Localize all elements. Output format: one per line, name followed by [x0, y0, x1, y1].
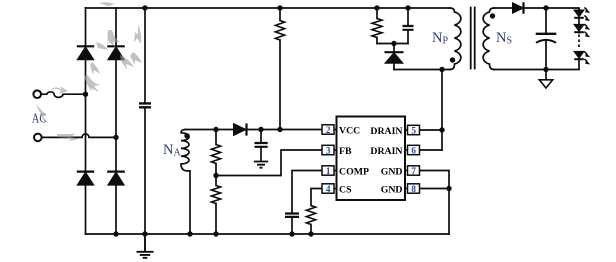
junction dot neutral to bridge [113, 135, 118, 140]
svg-text:AC: AC [32, 110, 47, 125]
clamp diode snubber [385, 51, 404, 53]
wire snubber cap branch [407, 8, 409, 44]
svg-text:7: 7 [411, 166, 416, 176]
junction dot primary bottom / drain [439, 67, 444, 72]
pin 7 box [405, 166, 420, 176]
wire feedback divider branch [215, 130, 217, 235]
LED 3 emission arrows [584, 52, 587, 54]
svg-text:6: 6 [411, 145, 416, 155]
bridge diode D2 (top right) [107, 45, 125, 47]
svg-text:CS: CS [339, 185, 352, 196]
junction dot bottom rail / divider [213, 231, 218, 236]
wire pin8 to bottom rail [419, 189, 449, 235]
pin 8 box [405, 184, 420, 194]
bridge diode D1 (top left) [77, 45, 94, 47]
polarity dot NS [490, 13, 495, 18]
AC terminal live [33, 90, 41, 98]
resistor startup (HV) [275, 21, 284, 41]
junction dot top rail / snubber R [374, 5, 379, 10]
svg-text:COMP: COMP [339, 167, 369, 178]
fuse F1 [41, 92, 85, 97]
wire pin5 to drain node [419, 129, 442, 131]
svg-text:GND: GND [381, 167, 403, 178]
wire output cap branch [545, 8, 547, 70]
resistor divider bottom [211, 186, 220, 204]
svg-text:3: 3 [326, 145, 331, 155]
junction dot bottom rail / bridge [113, 231, 118, 236]
LED 1 emission arrows [584, 7, 587, 9]
ground VCC cap [254, 162, 268, 168]
junction dot top rail / bulk cap [142, 5, 147, 10]
transformer primary winding NP [450, 8, 461, 70]
capacitor VCC [255, 143, 268, 147]
resistor CS sense [306, 206, 315, 225]
junction dot bottom rail / comp cap [289, 231, 294, 236]
junction dot top rail / snubber C [405, 5, 410, 10]
junction dot gnd loop pin8 [446, 186, 451, 191]
wire pin7 to gnd loop [419, 171, 449, 189]
junction dot VCC line / divider [213, 127, 218, 132]
wire secondary bottom [494, 69, 579, 71]
capacitor bulk [139, 103, 151, 107]
wire VCC cap branch [260, 130, 262, 162]
junction dot top rail / startup R [277, 5, 282, 10]
junction dot secondary top / cap [543, 5, 548, 10]
wire neutral lead with crossover hop [42, 134, 116, 138]
junction dot VCC line / cap [258, 127, 263, 132]
wire aux winding return [189, 171, 191, 234]
svg-text:5: 5 [411, 125, 416, 135]
capacitor output (polarized) [536, 33, 557, 35]
svg-text:FB: FB [339, 146, 352, 157]
LED 1 [574, 10, 584, 17]
wire bulk cap branch [144, 8, 146, 234]
pin 6 box [405, 145, 420, 155]
wire CS pin4 to resistor [311, 189, 322, 235]
ground main (primary) [137, 234, 154, 258]
svg-text:GND: GND [381, 185, 403, 196]
ground output (open triangle) [539, 80, 552, 88]
polarity dot NA [184, 133, 189, 138]
diode output rectifier [513, 3, 524, 13]
wire snubber node [377, 43, 408, 45]
svg-text:1: 1 [326, 166, 331, 176]
op-amp / controller IC U1 body [337, 117, 406, 201]
wire LED string [578, 8, 580, 70]
junction dot bottom rail / bulk cap [142, 231, 147, 236]
wire secondary top [494, 7, 579, 9]
wire output ground stem [545, 70, 547, 80]
bridge diode D3 (bottom left) [77, 171, 94, 173]
wire COMP pin1 to cap [292, 171, 322, 235]
junction dot secondary bottom / cap [543, 67, 548, 72]
wire primary bottom [394, 69, 450, 71]
wire pin6 to drain node [419, 149, 442, 151]
decorative gray marks (not labelled components) [36, 2, 142, 141]
pin 3 box [322, 145, 337, 155]
resistor snubber [372, 19, 382, 38]
wire startup resistor branch [279, 8, 281, 130]
junction dot drain node pin5 [439, 127, 444, 132]
resistor divider top [211, 145, 220, 164]
wire LED string dashed gap [578, 35, 580, 50]
wire snubber resistor branch [376, 8, 378, 44]
transformer core [471, 8, 475, 69]
LED 3 [574, 52, 584, 59]
junction dot bottom rail / aux return [187, 231, 192, 236]
pin 1 box [322, 166, 337, 176]
junction dot VCC line / startup R [277, 127, 282, 132]
wire top rail [86, 7, 451, 9]
capacitor snubber [403, 26, 414, 30]
wire bottom rail [86, 233, 450, 235]
bridge diode D4 (bottom right) [107, 171, 125, 173]
wire drain node vertical [441, 70, 443, 151]
svg-text:DRAIN: DRAIN [370, 126, 402, 137]
junction dot bottom rail / cs resistor [308, 231, 313, 236]
AC terminal neutral [34, 134, 42, 142]
svg-text:DRAIN: DRAIN [370, 146, 402, 157]
wire bridge right leg [115, 8, 117, 234]
transformer secondary winding NS [483, 8, 494, 70]
svg-text:2: 2 [326, 125, 331, 135]
pin 4 box [322, 184, 337, 194]
wire bridge left leg [85, 8, 87, 234]
junction dot divider midpoint [213, 173, 218, 178]
wire VCC line [185, 129, 322, 131]
svg-text:VCC: VCC [339, 126, 360, 137]
svg-text:8: 8 [411, 184, 416, 194]
pin 5 box [405, 125, 420, 135]
junction dot fuse to bridge [83, 92, 88, 97]
svg-text:4: 4 [326, 184, 331, 194]
capacitor COMP [285, 214, 299, 217]
LED 2 emission arrows [584, 24, 587, 26]
wire clamp diode stem [393, 44, 395, 70]
wire FB pin3 to divider [216, 150, 322, 176]
diode VCC rectifier [234, 124, 247, 136]
junction dot snubber node [391, 41, 396, 46]
polarity dot NP [450, 57, 455, 62]
pin 2 box [322, 125, 337, 135]
transformer aux winding NA [181, 130, 190, 172]
LED 2 [574, 25, 584, 32]
